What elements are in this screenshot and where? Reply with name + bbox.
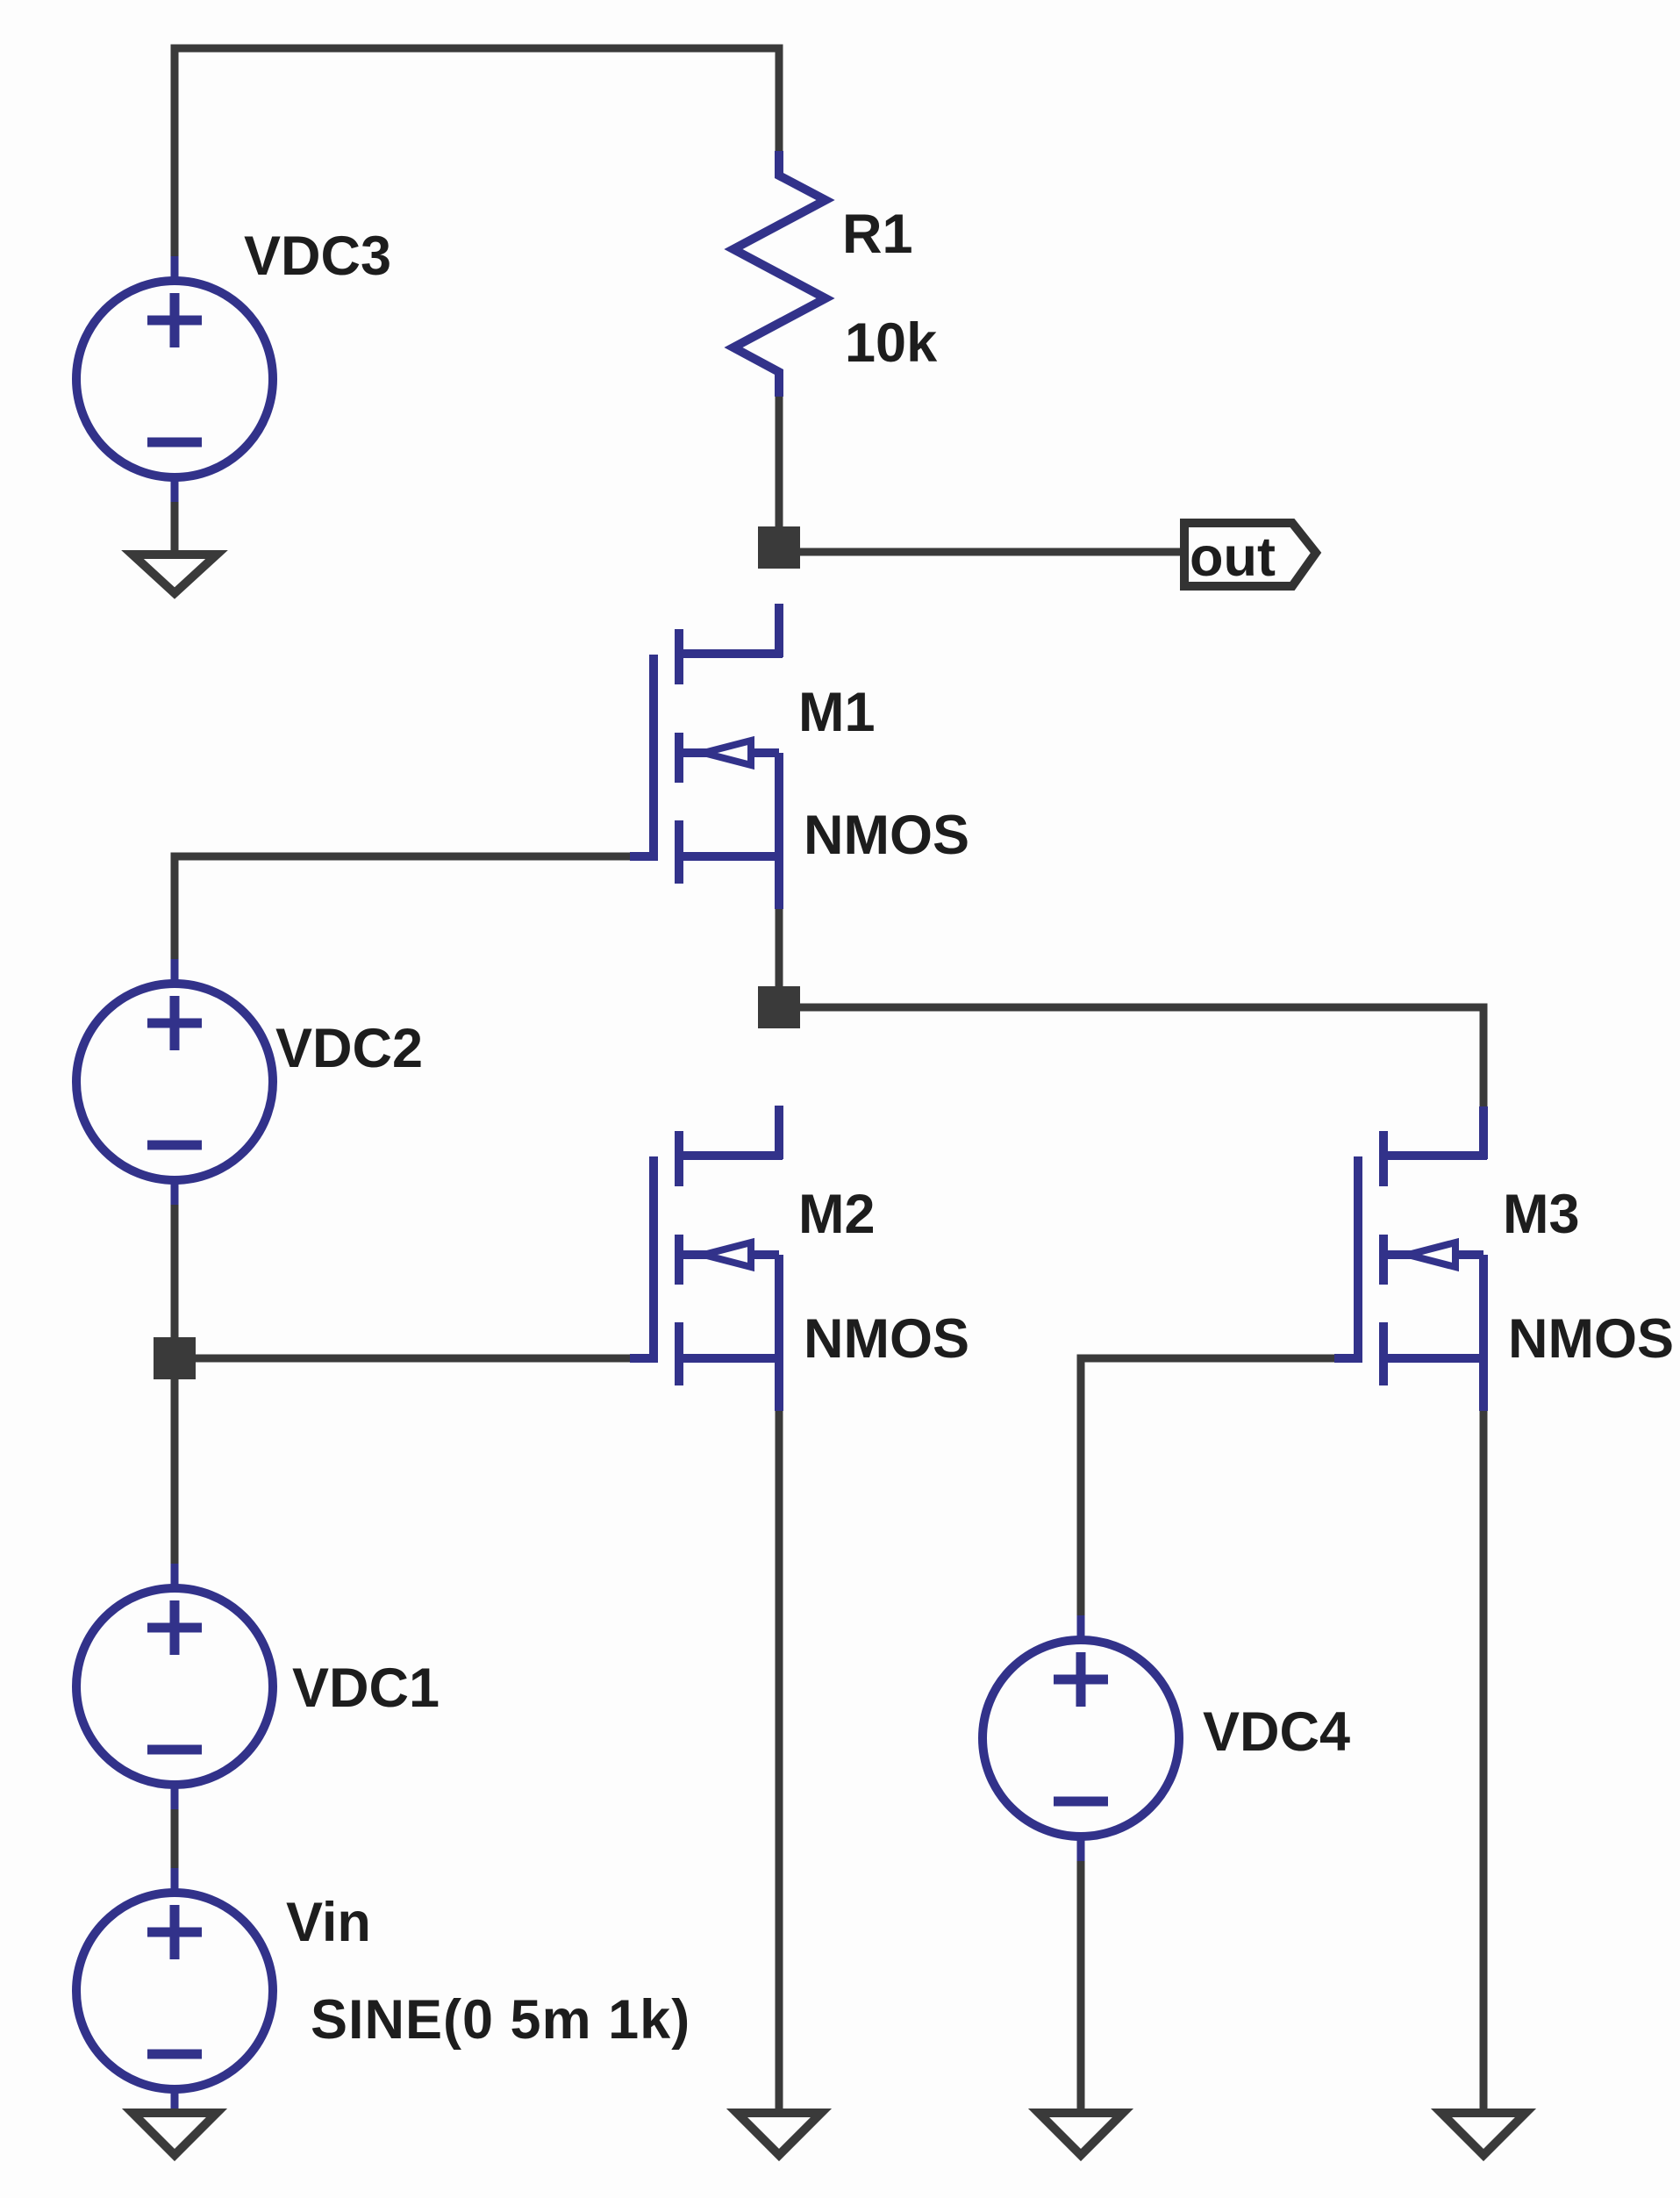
wire (175, 48, 779, 259)
svg-text:NMOS: NMOS (804, 1308, 969, 1370)
wire (776, 1411, 783, 2109)
wire (175, 856, 630, 963)
transistor M3 (1334, 1106, 1487, 1411)
wire (1480, 1411, 1488, 2109)
node M1 source junction (758, 986, 800, 1028)
node VDC1 junction (154, 1337, 196, 1379)
resistor R1 (733, 151, 826, 397)
svg-text:VDC4: VDC4 (1203, 1701, 1350, 1763)
svg-text:NMOS: NMOS (1508, 1308, 1674, 1370)
wire (776, 397, 783, 530)
ground (737, 2113, 821, 2155)
node out junction (758, 526, 800, 569)
svg-text:R1: R1 (842, 204, 913, 265)
wire (171, 1205, 179, 1341)
wire (171, 1809, 179, 1868)
ground (132, 2113, 217, 2155)
wire (171, 502, 179, 553)
svg-text:out: out (1190, 526, 1276, 588)
voltage source VDC3 (76, 256, 273, 502)
voltage source VDC4 (983, 1615, 1179, 1861)
ground (132, 555, 217, 593)
svg-text:NMOS: NMOS (804, 805, 969, 866)
voltage source VDC1 (76, 1564, 273, 1809)
wire (1081, 1358, 1334, 1619)
wire (1077, 1861, 1085, 2109)
svg-text:VDC2: VDC2 (275, 1018, 423, 1079)
net flag out (1184, 523, 1316, 588)
wire (171, 1379, 179, 1564)
wire (196, 1355, 630, 1363)
ground (1441, 2113, 1526, 2155)
wire (798, 548, 1183, 556)
svg-text:M1: M1 (798, 682, 876, 743)
voltage source VDC2 (76, 959, 273, 1205)
svg-text:M3: M3 (1503, 1184, 1580, 1245)
wire (776, 909, 783, 990)
svg-text:SINE(0 5m 1k): SINE(0 5m 1k) (311, 1989, 690, 2051)
wire (798, 1007, 1483, 1110)
svg-text:Vin: Vin (286, 1892, 371, 1953)
svg-text:M2: M2 (798, 1184, 876, 1245)
svg-text:VDC3: VDC3 (244, 226, 391, 287)
transistor M2 (630, 1106, 783, 1411)
ground (1039, 2113, 1123, 2155)
transistor M1 (630, 604, 783, 909)
svg-text:VDC1: VDC1 (292, 1657, 440, 1719)
svg-text:10k: 10k (845, 312, 938, 374)
voltage source Vin (76, 1868, 273, 2114)
